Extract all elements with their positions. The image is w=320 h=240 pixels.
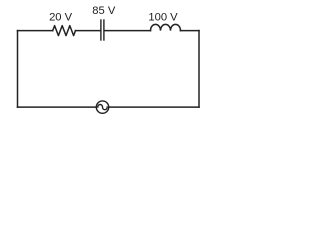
inductor (100 V) — [151, 24, 181, 30]
wire capacitor to inductor — [105, 30, 151, 32]
svg-text:20 V: 20 V — [49, 11, 73, 23]
wire inductor to top-right corner — [181, 30, 200, 32]
wire resistor to capacitor — [76, 30, 101, 32]
wire bottom-right segment — [109, 106, 199, 108]
resistor (20 V) — [53, 26, 76, 36]
capacitor (85 V) — [101, 20, 104, 40]
svg-text:85 V: 85 V — [92, 5, 116, 17]
wire right vertical — [198, 31, 200, 108]
wire bottom-left segment — [18, 106, 97, 108]
wire left vertical — [17, 31, 19, 108]
AC source V1 — [96, 101, 108, 113]
svg-text:100 V: 100 V — [148, 11, 178, 23]
wire top-left segment — [18, 30, 53, 32]
